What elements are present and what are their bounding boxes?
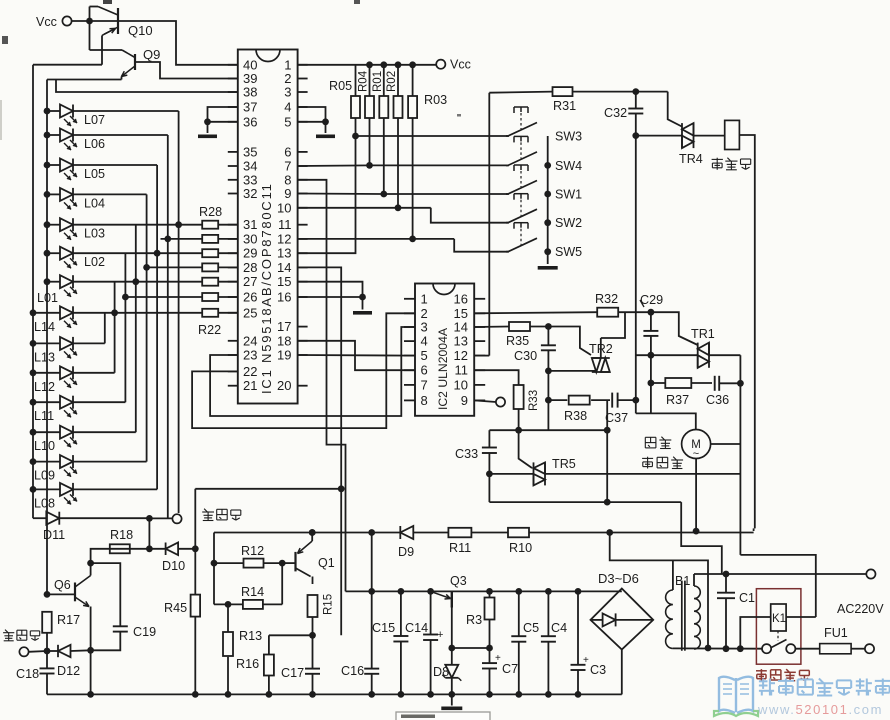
svg-text:C32: C32 — [604, 106, 627, 120]
svg-text:~: ~ — [693, 448, 699, 460]
svg-text:C14: C14 — [405, 621, 428, 635]
svg-text:1: 1 — [421, 291, 428, 306]
svg-text:22: 22 — [243, 364, 257, 379]
svg-text:TR5: TR5 — [552, 457, 576, 471]
svg-text:R35: R35 — [506, 334, 529, 348]
svg-text:C17: C17 — [281, 666, 304, 680]
svg-text:Q3: Q3 — [450, 574, 467, 588]
svg-text:11: 11 — [278, 217, 292, 232]
svg-text:13: 13 — [277, 246, 291, 261]
svg-text:9: 9 — [284, 186, 291, 201]
svg-text:4: 4 — [284, 100, 291, 115]
svg-text:C3: C3 — [590, 663, 606, 677]
svg-text:3: 3 — [421, 320, 428, 335]
svg-text:7: 7 — [284, 159, 291, 174]
svg-text:16: 16 — [454, 291, 468, 306]
svg-text:Q10: Q10 — [128, 23, 153, 38]
svg-text:C16: C16 — [341, 664, 364, 678]
svg-text:D8: D8 — [433, 665, 449, 679]
svg-text:3: 3 — [284, 85, 291, 100]
svg-text:23: 23 — [243, 348, 257, 363]
svg-text:K1: K1 — [772, 613, 786, 625]
svg-text:12: 12 — [454, 348, 468, 363]
svg-text:8: 8 — [421, 393, 428, 408]
svg-text:L06: L06 — [84, 137, 105, 151]
svg-text:R28: R28 — [199, 205, 222, 219]
svg-text:L13: L13 — [34, 350, 55, 364]
svg-text:D9: D9 — [398, 545, 414, 559]
svg-text:R04: R04 — [358, 70, 370, 92]
svg-text:R33: R33 — [528, 390, 540, 411]
svg-text:SW4: SW4 — [555, 159, 582, 173]
svg-text:C7: C7 — [502, 662, 518, 676]
svg-text:L11: L11 — [34, 409, 54, 423]
svg-text:24: 24 — [243, 333, 257, 348]
svg-text:SW3: SW3 — [555, 130, 582, 144]
svg-text:L14: L14 — [34, 320, 55, 334]
svg-text:34: 34 — [243, 159, 257, 174]
svg-text:C37: C37 — [605, 411, 628, 425]
svg-text:16: 16 — [277, 290, 291, 305]
svg-text:R05: R05 — [329, 79, 352, 93]
svg-text:+: + — [437, 629, 443, 641]
svg-text:28: 28 — [243, 260, 257, 275]
svg-text:C19: C19 — [133, 625, 156, 639]
svg-text:R12: R12 — [241, 544, 264, 558]
svg-text:14: 14 — [277, 260, 291, 275]
svg-text:36: 36 — [243, 114, 257, 129]
svg-text:35: 35 — [243, 144, 257, 159]
svg-text:R38: R38 — [564, 409, 587, 423]
svg-text:21: 21 — [243, 378, 257, 393]
svg-text:30: 30 — [243, 231, 257, 246]
svg-text:R22: R22 — [198, 323, 221, 337]
svg-text:FU1: FU1 — [824, 626, 848, 640]
svg-text:R03: R03 — [424, 93, 447, 107]
svg-text:10: 10 — [454, 377, 468, 392]
svg-text:AC220V: AC220V — [837, 602, 884, 616]
svg-text:7: 7 — [421, 377, 428, 392]
svg-text:C4: C4 — [551, 621, 567, 635]
svg-text:25: 25 — [243, 305, 257, 320]
svg-text:29: 29 — [243, 246, 257, 261]
svg-text:38: 38 — [243, 85, 257, 100]
svg-text:C1: C1 — [739, 591, 755, 605]
svg-text:R10: R10 — [509, 541, 532, 555]
svg-text:4: 4 — [421, 334, 428, 349]
svg-text:L12: L12 — [34, 380, 55, 394]
svg-text:www.520101.com: www.520101.com — [757, 702, 883, 717]
svg-text:SW1: SW1 — [555, 188, 582, 202]
svg-text:5: 5 — [421, 348, 428, 363]
svg-text:+: + — [583, 655, 589, 666]
svg-text:Q9: Q9 — [143, 47, 160, 62]
svg-text:TR2: TR2 — [589, 342, 613, 356]
svg-text:B1: B1 — [675, 574, 690, 588]
svg-text:C5: C5 — [523, 621, 539, 635]
svg-text:TR1: TR1 — [691, 327, 715, 341]
svg-text:27: 27 — [243, 274, 257, 289]
svg-text:R37: R37 — [666, 393, 689, 407]
svg-text:R32: R32 — [595, 292, 618, 306]
svg-text:Vcc: Vcc — [36, 15, 57, 29]
svg-text:17: 17 — [277, 319, 291, 334]
svg-text:Q1: Q1 — [318, 556, 335, 570]
svg-text:L10: L10 — [34, 439, 55, 453]
svg-text:L08: L08 — [34, 496, 55, 510]
svg-text:15: 15 — [454, 306, 468, 321]
svg-text:10: 10 — [277, 200, 291, 215]
svg-text:R13: R13 — [239, 629, 262, 643]
svg-text:L09: L09 — [34, 469, 55, 483]
svg-text:Vcc: Vcc — [450, 58, 471, 72]
svg-text:L05: L05 — [84, 167, 105, 181]
svg-text:L03: L03 — [84, 227, 105, 241]
svg-text:L02: L02 — [84, 255, 105, 269]
svg-text:IC1 N59518AB/COP8780C11: IC1 N59518AB/COP8780C11 — [259, 182, 274, 394]
svg-text:R11: R11 — [449, 541, 471, 555]
svg-text:13: 13 — [454, 334, 468, 349]
svg-text:IC2 ULN2004A: IC2 ULN2004A — [436, 327, 450, 410]
svg-text:R15: R15 — [323, 594, 335, 615]
svg-text:D3~D6: D3~D6 — [598, 571, 639, 586]
svg-text:D12: D12 — [57, 664, 80, 678]
svg-text:R17: R17 — [57, 613, 80, 627]
svg-text:19: 19 — [277, 348, 291, 363]
svg-text:20: 20 — [277, 378, 291, 393]
svg-text:9: 9 — [461, 393, 468, 408]
svg-text:6: 6 — [421, 363, 428, 378]
svg-text:C33: C33 — [455, 447, 478, 461]
svg-text:32: 32 — [243, 186, 257, 201]
svg-text:C36: C36 — [706, 393, 729, 407]
svg-text:C30: C30 — [514, 349, 537, 363]
svg-text:R01: R01 — [372, 71, 384, 92]
svg-text:15: 15 — [277, 274, 291, 289]
svg-text:6: 6 — [284, 144, 291, 159]
svg-text:18: 18 — [277, 333, 291, 348]
svg-text:SW5: SW5 — [555, 245, 582, 259]
svg-text:D11: D11 — [43, 528, 65, 542]
svg-text:SW2: SW2 — [555, 216, 582, 230]
svg-text:R16: R16 — [236, 657, 259, 671]
svg-text:R02: R02 — [386, 71, 398, 92]
svg-text:+: + — [495, 653, 501, 664]
svg-text:R14: R14 — [241, 585, 264, 599]
svg-text:26: 26 — [243, 290, 257, 305]
svg-text:14: 14 — [454, 320, 468, 335]
svg-text:TR4: TR4 — [679, 152, 703, 166]
svg-text:R45: R45 — [164, 601, 187, 615]
svg-text:11: 11 — [455, 363, 469, 378]
svg-text:12: 12 — [277, 231, 291, 246]
svg-text:R31: R31 — [553, 99, 576, 113]
svg-text:R3: R3 — [466, 613, 482, 627]
svg-text:R18: R18 — [110, 528, 133, 542]
svg-text:C15: C15 — [372, 621, 395, 635]
svg-text:37: 37 — [243, 100, 257, 115]
svg-text:5: 5 — [284, 114, 291, 129]
svg-text:L01: L01 — [37, 291, 58, 305]
svg-text:Q6: Q6 — [54, 578, 71, 592]
svg-text:C18: C18 — [16, 667, 39, 681]
svg-text:D10: D10 — [162, 559, 185, 573]
svg-text:L04: L04 — [84, 196, 105, 210]
svg-text:31: 31 — [243, 217, 257, 232]
svg-text:L07: L07 — [84, 113, 105, 127]
